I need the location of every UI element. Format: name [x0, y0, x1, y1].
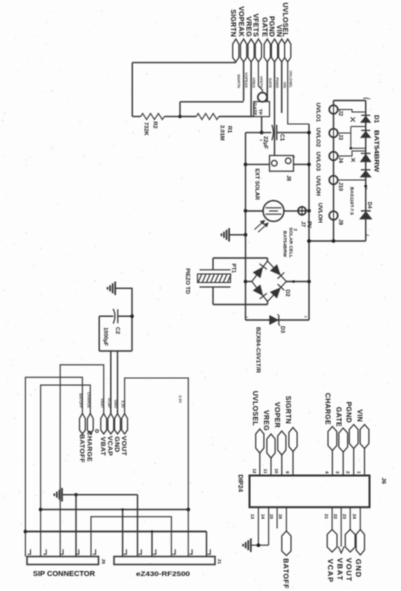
svg-text:VREG: VREG: [244, 16, 251, 37]
svg-text:PV: PV: [305, 221, 311, 228]
svg-text:12: 12: [252, 468, 257, 474]
svg-text:VOPEAK: VOPEAK: [244, 72, 248, 88]
svg-text:PGND: PGND: [268, 16, 275, 37]
svg-text:3.3V: 3.3V: [178, 395, 182, 403]
svg-text:PGND: PGND: [345, 402, 352, 423]
svg-text:VREG: VREG: [262, 410, 269, 431]
svg-text:CHARGE: CHARGE: [86, 392, 90, 409]
svg-text:2: 2: [346, 471, 351, 474]
svg-text:GND: GND: [354, 559, 363, 578]
svg-text:J8: J8: [285, 175, 291, 181]
svg-text:3.01M: 3.01M: [218, 125, 224, 141]
svg-text:C2: C2: [114, 327, 120, 334]
svg-text:BATOFF: BATOFF: [282, 558, 289, 589]
svg-text:VBAT: VBAT: [336, 558, 345, 581]
svg-text:PT1: PT1: [230, 263, 236, 273]
svg-text:GND: GND: [113, 436, 120, 452]
svg-text:VOPEAK: VOPEAK: [237, 6, 244, 37]
svg-text:CHARGE: CHARGE: [86, 431, 93, 462]
svg-text:PIEZO TD: PIEZO TD: [184, 268, 190, 294]
svg-text:GATE: GATE: [268, 78, 272, 89]
svg-text:J1: J1: [216, 559, 222, 565]
svg-text:D1: D1: [373, 115, 380, 124]
svg-text:11: 11: [263, 469, 268, 474]
svg-text:13: 13: [250, 514, 255, 520]
svg-text:1000µF: 1000µF: [102, 327, 108, 346]
svg-text:eZ430-RF2500: eZ430-RF2500: [136, 571, 191, 578]
svg-text:J7: J7: [300, 221, 306, 227]
svg-text:C1: C1: [278, 134, 284, 141]
svg-text:J2: J2: [337, 110, 343, 116]
svg-text:1: 1: [364, 188, 368, 190]
svg-text:VOPER: VOPER: [273, 402, 280, 428]
svg-text:1: 1: [357, 471, 362, 474]
svg-text:J10: J10: [337, 182, 343, 191]
svg-text:GATE: GATE: [251, 103, 257, 117]
svg-text:BAT54BRW: BAT54BRW: [373, 130, 380, 172]
svg-text:3: 3: [335, 471, 340, 474]
svg-text:GATE: GATE: [260, 17, 267, 37]
svg-text:1: 1: [367, 98, 371, 100]
svg-text:UVLOH: UVLOH: [317, 203, 323, 223]
svg-text:J6: J6: [380, 478, 386, 485]
svg-text:4: 4: [324, 471, 329, 474]
svg-text:VCAP: VCAP: [106, 436, 113, 456]
svg-text:VREG: VREG: [252, 78, 256, 89]
svg-text:D4: D4: [366, 202, 372, 209]
svg-text:J5: J5: [100, 559, 106, 565]
svg-text:TP: TP: [257, 109, 263, 116]
svg-text:R1: R1: [226, 126, 232, 133]
svg-text:21: 21: [324, 514, 329, 520]
svg-text:VFETS: VFETS: [252, 13, 259, 37]
svg-text:D3: D3: [279, 326, 285, 333]
svg-text:SIGRTN: SIGRTN: [236, 74, 240, 88]
svg-text:UVLO3: UVLO3: [315, 152, 321, 172]
svg-text:22µF: 22µF: [262, 136, 268, 149]
svg-text:VOUT: VOUT: [120, 436, 127, 457]
svg-text:UVLOH: UVLOH: [315, 176, 321, 196]
svg-text:UVLOSEL: UVLOSEL: [288, 71, 292, 89]
svg-text:J4: J4: [337, 157, 343, 163]
svg-text:BZX84-C5V1T/R: BZX84-C5V1T/R: [254, 327, 260, 373]
svg-text:VCAP: VCAP: [326, 559, 335, 583]
svg-text:DIP24: DIP24: [236, 474, 243, 492]
svg-text:GATE: GATE: [334, 407, 341, 427]
svg-text:CHARGE: CHARGE: [324, 393, 331, 425]
svg-text:BAS116T-7.5: BAS116T-7.5: [348, 187, 354, 215]
svg-text:VIN: VIN: [356, 409, 363, 422]
svg-text:14: 14: [260, 514, 265, 520]
svg-text:3.3V: 3.3V: [121, 400, 125, 408]
svg-text:3: 3: [303, 316, 307, 318]
svg-text:BATOFF: BATOFF: [78, 434, 85, 463]
svg-text:VBAT: VBAT: [99, 437, 106, 457]
svg-text:2: 2: [365, 234, 369, 236]
svg-text:SOLAR CELL: SOLAR CELL: [288, 227, 294, 258]
svg-text:J9: J9: [337, 219, 343, 225]
svg-text:23: 23: [342, 514, 347, 520]
svg-text:22: 22: [333, 514, 338, 520]
svg-text:VIN: VIN: [282, 82, 286, 88]
svg-text:9: 9: [285, 471, 290, 474]
svg-text:SIGRTN: SIGRTN: [229, 9, 236, 37]
svg-text:24: 24: [352, 514, 357, 520]
svg-text:R2: R2: [152, 121, 158, 128]
svg-text:15: 15: [269, 514, 274, 520]
svg-text:BATOFF: BATOFF: [78, 393, 82, 408]
svg-text:VBAT: VBAT: [100, 398, 104, 409]
svg-text:10: 10: [274, 468, 279, 474]
svg-text:GND: GND: [114, 400, 118, 409]
svg-text:PGND: PGND: [275, 77, 279, 88]
svg-text:1: 1: [292, 156, 296, 158]
svg-text:UVLOSEL: UVLOSEL: [281, 3, 288, 38]
svg-text:SIGRTN: SIGRTN: [284, 396, 291, 424]
svg-text:D2: D2: [284, 289, 290, 296]
svg-text:UVLO1: UVLO1: [315, 103, 321, 123]
svg-text:2: 2: [293, 229, 298, 232]
svg-text:J3: J3: [337, 134, 343, 140]
svg-text:1: 1: [245, 316, 249, 318]
svg-text:BAT54BRW: BAT54BRW: [282, 231, 288, 258]
svg-text:VCAP: VCAP: [107, 398, 111, 409]
svg-text:VIN: VIN: [275, 25, 282, 37]
svg-text:UVLO2: UVLO2: [315, 128, 321, 147]
svg-text:SIP CONNECTOR: SIP CONNECTOR: [33, 571, 95, 578]
svg-text:732K: 732K: [143, 122, 149, 135]
svg-text:EXT SOLAR: EXT SOLAR: [253, 169, 259, 201]
